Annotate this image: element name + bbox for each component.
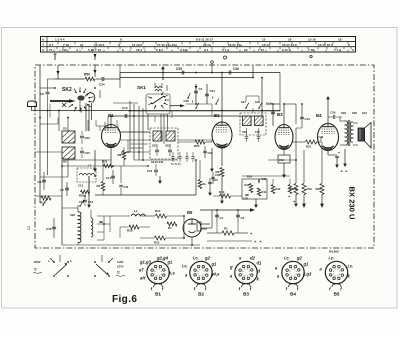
svg-text:21: 21 [80, 43, 84, 47]
coil S5 [62, 147, 75, 159]
svg-text:g1,g3: g1,g3 [139, 260, 152, 265]
wire SK2 out [79, 101, 81, 111]
svg-text:3: 3 [352, 48, 354, 52]
wire [295, 104, 297, 124]
wire B4 anode up arrow [327, 99, 329, 124]
resistor R19 [303, 150, 305, 183]
wire af coupling [252, 108, 254, 113]
heater chain resistor coil [78, 212, 81, 243]
capacitor C4 [195, 84, 197, 104]
svg-text:3 11a: 3 11a [180, 48, 188, 52]
capacitor C19 grid [272, 104, 274, 126]
svg-text:R4.993: R4.993 [329, 250, 339, 254]
wire y124 [40, 123, 58, 125]
wire SK2-SK1 link [99, 90, 101, 98]
svg-text:C12: C12 [121, 151, 126, 155]
svg-text:L7: L7 [88, 164, 92, 168]
svg-text:B3: B3 [277, 112, 283, 117]
wire B3 bottom bus [268, 159, 296, 161]
svg-text:g: g [229, 265, 233, 270]
svg-text:eT: eT [139, 268, 144, 273]
svg-text:R2: R2 [97, 184, 101, 188]
switch contact S [195, 107, 197, 109]
wire left drops [47, 111, 49, 176]
resistor R16b [249, 184, 253, 193]
svg-text:7 10: 7 10 [63, 43, 69, 47]
svg-text:B2: B2 [198, 292, 204, 297]
wire [94, 65, 96, 77]
svg-text:7 16: 7 16 [308, 48, 314, 52]
svg-text:C37: C37 [210, 89, 216, 93]
resistor R16 [81, 190, 90, 194]
svg-text:R10: R10 [219, 190, 225, 194]
trimmer C25 [80, 150, 84, 152]
svg-text:g2: g2 [204, 256, 211, 261]
svg-text:16 21 14a: 16 21 14a [228, 43, 242, 47]
svg-text:C19: C19 [305, 117, 311, 121]
svg-text:C36: C36 [233, 67, 239, 71]
ground B1 cathode [94, 150, 96, 170]
tube base B4 [275, 256, 312, 297]
SK2 wiper arrow [50, 100, 69, 102]
svg-text:S3: S3 [63, 127, 67, 131]
svg-text:g2: g2 [296, 256, 303, 261]
svg-text:9 11 4: 9 11 4 [282, 48, 291, 52]
svg-text:C9: C9 [40, 92, 44, 96]
wire B5 bottom [191, 237, 193, 245]
svg-text:16 14: 16 14 [262, 43, 270, 47]
svg-text:220V: 220V [34, 260, 41, 264]
svg-text:R15: R15 [293, 187, 298, 191]
wire C4 row [186, 103, 212, 105]
resistor R2 [102, 160, 104, 181]
svg-text:B1: B1 [155, 292, 161, 297]
wire bus [62, 165, 148, 167]
heater winding B [91, 218, 93, 237]
svg-text:16: 16 [288, 38, 292, 42]
ground [209, 188, 211, 194]
svg-text:12: 12 [26, 225, 31, 230]
svg-text:11 13 5: 11 13 5 [132, 43, 142, 47]
switch contact S [215, 103, 217, 105]
wire left verticals [49, 104, 51, 118]
svg-text:18 4: 18 4 [136, 48, 142, 52]
coil S11 [153, 131, 162, 141]
svg-text:R14: R14 [155, 209, 161, 213]
node terminal [211, 61, 214, 64]
resistor R12b [272, 179, 274, 184]
svg-text:4: 4 [118, 43, 120, 47]
capacitor C31 [257, 179, 259, 182]
svg-text:77: 77 [49, 48, 53, 52]
svg-text:g1: g1 [167, 260, 174, 265]
svg-text:Rs: Rs [168, 226, 172, 230]
switch contact S16 [258, 107, 260, 109]
wire [252, 65, 254, 78]
capacitor C33 [245, 193, 248, 195]
tube base B1 [139, 256, 175, 297]
svg-text:k,g3: k,g3 [303, 272, 312, 277]
svg-text:C38: C38 [184, 99, 190, 103]
wire top right drop [279, 73, 281, 112]
svg-text:Fig.6: Fig.6 [112, 294, 137, 305]
wire antenna bus [32, 110, 281, 112]
resistor R10 [220, 194, 231, 198]
extra band-switch wiring mesh [107, 116, 109, 131]
wire feed arrow [162, 69, 164, 81]
svg-text:R16: R16 [245, 183, 250, 187]
strip pointer marks [54, 54, 56, 60]
capacitor C20b [212, 172, 214, 184]
svg-text:R20: R20 [316, 187, 322, 191]
wire vertical drops SK area [104, 122, 106, 131]
svg-text:8 9 11 16 17: 8 9 11 16 17 [196, 38, 213, 42]
svg-text:R12: R12 [276, 187, 281, 191]
wire heater bus [62, 207, 78, 209]
pick-up sockets [200, 223, 210, 225]
svg-text:S20: S20 [352, 111, 357, 115]
svg-text:4: 4 [76, 48, 78, 52]
svg-text:C35: C35 [176, 67, 182, 71]
IF transformer 1 box [150, 128, 178, 159]
capacitor C10 [83, 199, 87, 201]
svg-text:B2: B2 [214, 113, 220, 118]
wire bottom bus [62, 244, 200, 246]
svg-text:20: 20 [244, 48, 248, 52]
svg-text:L1: L1 [134, 209, 138, 213]
coil S3 [62, 131, 75, 143]
svg-text:18: 18 [338, 38, 342, 42]
svg-text:14 13 5: 14 13 5 [94, 43, 105, 47]
svg-text:B3: B3 [243, 292, 249, 297]
IF transformer 2 box [240, 113, 266, 135]
wire [119, 73, 121, 89]
mains selector B [94, 261, 96, 263]
tube base B3 [229, 256, 262, 297]
svg-text:B4: B4 [290, 292, 296, 297]
ground B2 [211, 148, 213, 170]
resistor R7 [199, 160, 201, 179]
capacitor C9 [46, 91, 50, 93]
svg-text:R1: R1 [224, 227, 228, 231]
capacitor C27 [168, 149, 172, 151]
resistor R21 [306, 140, 317, 144]
svg-text:C33: C33 [243, 197, 248, 201]
svg-text:SK1: SK1 [137, 85, 146, 90]
svg-text:S17: S17 [241, 100, 246, 104]
svg-text:15: 15 [262, 38, 266, 42]
coil S15 [255, 116, 264, 126]
ground below B3 [283, 163, 285, 176]
svg-text:i.c.: i.c. [182, 264, 188, 269]
resistor R15 [289, 179, 291, 184]
SK1 contact fan [161, 94, 163, 96]
resistor R18 [129, 225, 139, 229]
switch contact [187, 97, 189, 99]
svg-text:C23: C23 [85, 136, 91, 140]
svg-text:C15: C15 [78, 184, 84, 188]
ground [159, 176, 161, 182]
svg-text:d1: d1 [257, 261, 263, 266]
svg-text:k,s: k,s [169, 271, 175, 276]
svg-text:d2: d2 [250, 256, 256, 261]
wire R50 row [55, 78, 85, 80]
wire arrow bus [200, 209, 250, 211]
wire [35, 151, 62, 153]
svg-text:B4: B4 [316, 113, 322, 118]
svg-text:S16: S16 [255, 100, 260, 104]
svg-text:S12: S12 [165, 144, 170, 148]
svg-text:R50: R50 [84, 73, 90, 77]
svg-text:5 18 7 14: 5 18 7 14 [88, 48, 101, 52]
resistor R14 [156, 214, 167, 218]
coil S14 [243, 116, 252, 126]
svg-text:R11: R11 [262, 190, 267, 194]
svg-text:C6: C6 [38, 180, 42, 184]
capacitor C6 [43, 172, 45, 190]
wire [128, 110, 280, 112]
svg-text:g4,s: g4,s [210, 272, 220, 277]
svg-text:9 1: 9 1 [204, 48, 209, 52]
svg-text:9: 9 [122, 48, 124, 52]
svg-text:127V: 127V [117, 265, 124, 269]
capacitor C2 [237, 210, 239, 222]
svg-text:13 15 76 3: 13 15 76 3 [318, 43, 333, 47]
capacitor C1 [216, 210, 218, 222]
svg-text:C25: C25 [85, 151, 91, 155]
svg-text:g1: g1 [211, 262, 218, 267]
svg-text:B5: B5 [334, 292, 340, 297]
junction dots [110, 115, 112, 117]
svg-text:R25: R25 [194, 144, 200, 148]
wire power bus right [183, 216, 185, 238]
svg-text:+: + [338, 151, 340, 155]
svg-text:S11: S11 [152, 144, 157, 148]
capacitor C32 [257, 136, 261, 138]
capacitor C28 [204, 146, 206, 158]
svg-text:C30: C30 [330, 111, 336, 115]
mains selector A [53, 261, 55, 263]
capacitor C22 [335, 155, 339, 157]
svg-text:d: d [258, 269, 261, 274]
wire B1 bottom [110, 148, 112, 167]
svg-text:15 16: 15 16 [308, 38, 316, 42]
capacitor C19b [301, 104, 303, 128]
svg-text:S18: S18 [341, 111, 346, 115]
svg-text:C32: C32 [255, 130, 260, 134]
svg-text:8: 8 [120, 38, 122, 42]
junction dots extra [129, 110, 131, 112]
wire bundle horizontals [130, 151, 150, 153]
wire ties power [104, 223, 110, 225]
capacitor C7 [66, 182, 68, 196]
svg-text:S9 20 S16: S9 20 S16 [151, 160, 164, 164]
svg-text:110V: 110V [117, 260, 124, 264]
svg-text:C31: C31 [262, 177, 267, 181]
svg-text:C16: C16 [147, 169, 153, 173]
svg-text:C2: C2 [241, 216, 245, 220]
wire SK1 bundle [129, 101, 131, 152]
capacitor C20 [209, 178, 211, 188]
svg-text:i.c.: i.c. [193, 256, 199, 261]
resistor R17 [295, 128, 297, 183]
wire speaker connections [353, 122, 358, 124]
capacitor C35 [181, 71, 183, 75]
svg-text:C14: C14 [106, 176, 112, 180]
capacitor C13 [124, 114, 126, 118]
svg-text:BX 230 U: BX 230 U [348, 187, 357, 220]
svg-text:C11: C11 [124, 185, 129, 189]
resistor R25 [195, 140, 205, 144]
svg-text:Rs: Rs [203, 182, 207, 186]
capacitor C19 box below B3 [278, 155, 290, 163]
capacitor C30 [332, 115, 334, 119]
wire [296, 127, 302, 129]
oscillator coil box L7 [77, 168, 96, 182]
SK1 out arrow [170, 105, 180, 107]
svg-text:3: 3 [348, 43, 350, 47]
wire af row [242, 175, 290, 177]
capacitor C29 [245, 136, 249, 138]
wire left column [39, 65, 41, 203]
svg-text:20 7a: 20 7a [203, 43, 211, 47]
svg-text:S22: S22 [70, 213, 75, 217]
antenna plug [28, 101, 37, 107]
svg-text:C34: C34 [99, 83, 105, 87]
resistor R8 [122, 151, 126, 160]
wire top bus [120, 72, 280, 74]
wire IF1 to B2 grid [178, 139, 212, 141]
chassis dash-dot border [35, 65, 374, 248]
svg-text:g1: g1 [303, 262, 310, 267]
resistor R9 [220, 168, 224, 177]
wire grid B1 [110, 116, 112, 125]
svg-text:6 7: 6 7 [49, 43, 54, 47]
svg-text:R19: R19 [247, 175, 252, 179]
wire B4 cathode [327, 151, 329, 156]
grid stopper R21 wire [320, 137, 322, 142]
wire B3 to R21 [292, 137, 294, 142]
resistor R50 [85, 77, 95, 81]
tube base B5 [320, 256, 354, 297]
svg-text:C1: C1 [220, 216, 224, 220]
wire B1 anode to IF1 [110, 120, 112, 125]
capacitor C26 [155, 149, 159, 151]
coil S12 [166, 131, 175, 141]
svg-text:S21: S21 [362, 111, 367, 115]
capacitor C12 [127, 140, 129, 150]
wire power row [104, 215, 130, 217]
SK1 coils [155, 87, 162, 89]
svg-text:C19: C19 [266, 102, 272, 106]
svg-text:5 3 4: 5 3 4 [156, 48, 163, 52]
capacitor C36 [228, 71, 230, 75]
resistor R4 [167, 222, 177, 226]
resistor R23 [104, 164, 113, 168]
svg-text:C18: C18 [46, 227, 52, 231]
wire B5 output [211, 210, 213, 228]
wire [211, 111, 213, 116]
svg-text:7 12: 7 12 [258, 48, 264, 52]
svg-text:R16: R16 [79, 194, 85, 198]
svg-text:C4: C4 [199, 87, 203, 91]
svg-text:15 17 21 8: 15 17 21 8 [282, 43, 297, 47]
capacitor C14 [112, 170, 114, 184]
capacitor C37 [206, 84, 208, 104]
wire [57, 65, 59, 79]
dial scale strip table [41, 36, 356, 38]
svg-text:i.c.: i.c. [348, 264, 354, 269]
svg-text:C30: C30 [215, 173, 221, 177]
wire B3 anode [283, 104, 285, 125]
wire B2 anode [221, 73, 223, 123]
svg-text:i.c.: i.c. [284, 256, 290, 261]
wire main lower bus [95, 194, 196, 196]
svg-text:R19: R19 [307, 187, 313, 191]
transformer secondary return arrow [344, 149, 346, 165]
svg-text:B5: B5 [187, 210, 193, 215]
capacitor C34 [101, 77, 103, 81]
tube base B2 [182, 256, 220, 297]
resistor R20 [321, 142, 323, 183]
AF network box [242, 179, 267, 199]
transformer core [347, 120, 349, 146]
svg-text:SK2: SK2 [62, 87, 72, 93]
svg-text:i.c.: i.c. [329, 256, 335, 261]
mains switch SK3 [42, 204, 44, 206]
svg-text:1 3 4 4: 1 3 4 4 [55, 38, 65, 42]
capacitor C11 [120, 166, 122, 183]
wire B2 cathode down [221, 148, 223, 166]
ground arrow [255, 199, 257, 206]
resistor R12 [41, 196, 51, 200]
resistor R1 [222, 231, 234, 235]
small caps row [171, 156, 174, 158]
capacitor C18 [53, 218, 55, 238]
svg-text:77 15 14a 15a: 77 15 14a 15a [157, 43, 177, 47]
capacitor C17 [99, 220, 102, 222]
svg-text:R18: R18 [127, 229, 133, 233]
resistor R11 [257, 188, 260, 196]
wire [119, 65, 121, 79]
svg-text:C13: C13 [122, 106, 128, 110]
switch contact S17 [245, 107, 247, 109]
resistor R13 [155, 236, 166, 240]
svg-text:R21: R21 [306, 145, 312, 149]
svg-text:R13: R13 [154, 241, 160, 245]
capacitor C16 [154, 169, 158, 171]
trimmer C23 [80, 135, 84, 137]
svg-text:7s 7s 7s: 7s 7s 7s [171, 163, 181, 166]
